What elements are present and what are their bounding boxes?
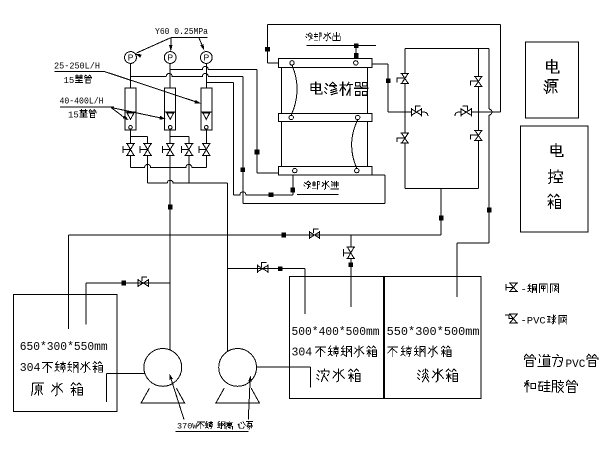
control cabinet box [521, 126, 588, 232]
fresh water tank box [385, 276, 481, 398]
electrodialyzer bottom flange [279, 166, 373, 175]
union on raw recirc [121, 281, 126, 286]
rotameter FM3 float cone [203, 113, 210, 119]
raw water tank box [13, 295, 117, 412]
wire V4 down crossing manifold1 [188, 155, 190, 183]
PVC ball valve on raw recirc [138, 277, 148, 287]
gate valve V5 (line3 main) [199, 144, 211, 156]
rotameter FM3 float line [201, 111, 212, 113]
wire FM2 to valve [169, 130, 171, 144]
pump M2 base [216, 388, 259, 403]
wire pump2 suction dip [310, 367, 312, 387]
svg-text:40-400L/H: 40-400L/H [60, 96, 104, 106]
wire drop to hose line [387, 64, 389, 112]
union on conc recirc [278, 266, 283, 271]
svg-text:550*300*500mm: 550*300*500mm [387, 326, 480, 339]
union on cooling-in riser [291, 188, 296, 193]
union cooling-out tee [354, 43, 359, 48]
pressure gauge P1 [125, 52, 137, 64]
wire valve2 down [169, 155, 171, 167]
gate valve on conc-fill [343, 247, 355, 259]
svg-text:-PVC: -PVC [521, 316, 546, 328]
wire cooling-out label line [307, 45, 376, 47]
wire inner loop right column middle [477, 87, 479, 131]
power supply box [525, 42, 578, 118]
wire raw recirc branch [86, 282, 170, 284]
label 原水箱 [32, 383, 83, 396]
label 不锈钢水箱 (conc tank) [316, 346, 377, 357]
wire hose-right end hook [455, 112, 461, 116]
rotameter FM3 outlet circle [205, 126, 209, 130]
port bottom-right [355, 168, 359, 172]
electrodialyzer top flange [279, 59, 373, 68]
label 塑管 (second) [80, 110, 96, 118]
wire manifold lower (V2-V4 to pump2 riser) [148, 180, 228, 183]
wire cooling-in run [233, 192, 292, 195]
label 铜闸阀 [528, 284, 559, 293]
wire conc-fill upper [350, 235, 352, 247]
union on fresh-feed vertical [487, 208, 492, 213]
label 管道为PVC管 (part2) [587, 354, 598, 366]
union on drop [386, 79, 391, 84]
label 塑管 (first) [75, 75, 91, 83]
wire inner loop drain [440, 189, 442, 236]
legend PVC ball valve symbol [505, 314, 518, 323]
svg-text:370W: 370W [177, 422, 198, 432]
wire inner loop bottom [405, 188, 479, 190]
PVC ball valve on return line [309, 229, 319, 239]
union on gauge1 drop [241, 167, 246, 172]
gate valve V4 (line2 bypass) [181, 144, 193, 156]
gate valve V3 (line2 main) [163, 144, 175, 156]
arrowhead at gauge P1 [135, 52, 142, 58]
wire gauge1 drop [242, 76, 244, 203]
label 40-400 underline [60, 106, 114, 108]
wire hose-left end hook [422, 112, 428, 116]
leader to gauge P3 [199, 38, 204, 50]
wire cooling-out drop to port [355, 46, 357, 59]
wire fresh-fill drop into tank [456, 243, 458, 297]
pressure gauge P3 [200, 52, 212, 64]
port bottom-left [293, 168, 297, 172]
label 箱 (control) [548, 194, 560, 208]
wire inner loop right column lower [477, 141, 479, 189]
label 冷却水进 [304, 181, 339, 189]
PVC ball valve inner-right-upper [471, 77, 483, 87]
PVC ball valve inner-left-lower [397, 133, 409, 143]
wire return line drop to raw tank [68, 235, 70, 329]
leader 25-250 to FM3 [105, 72, 200, 103]
union on return line [281, 233, 286, 238]
leader 40-400 to FM1 float [111, 108, 127, 120]
wire inner loop left column lower [404, 143, 406, 188]
label 浓水箱 [317, 369, 360, 382]
union on pump1 riser [168, 205, 173, 210]
rotameter FM2 body [165, 88, 176, 130]
svg-text:304: 304 [292, 347, 313, 360]
wire stub into top flange left [268, 62, 279, 64]
wire valve1 down [130, 155, 132, 167]
union on gauge2 drop [255, 150, 260, 155]
leader to gauge P2 [170, 38, 172, 50]
union on drain [439, 216, 444, 221]
wire pump2 riser [226, 183, 228, 351]
arrowhead at FM2 float [160, 116, 167, 121]
wire raw recirc drop [85, 283, 87, 324]
wire main return line [69, 234, 441, 236]
wire branch2 horizontal [170, 136, 189, 138]
rotameter FM3 body [201, 88, 212, 130]
rotameter FM2 float line [165, 111, 176, 113]
electrodialyzer middle flange [279, 113, 373, 121]
wire pump1 riser [169, 155, 171, 350]
wire manifold upper (V1-V3-V5) [131, 164, 207, 167]
label 电渗析器 [311, 82, 368, 95]
PVC ball valve on conc recirc [257, 263, 267, 273]
label 冷却水出 [306, 33, 341, 41]
pump M2 body [219, 349, 257, 387]
svg-text:304: 304 [20, 362, 41, 375]
svg-text:650*300*550mm: 650*300*550mm [20, 341, 108, 354]
rotameter FM2 outlet circle [168, 126, 172, 130]
PVC ball valve inner-right-lower [471, 131, 483, 141]
leader to pump M2 [248, 377, 250, 420]
wire inner loop right column upper [477, 48, 479, 76]
leader to gauge P1 [137, 38, 171, 53]
rotameter FM1 float cone [127, 113, 134, 119]
union on outer left drop [265, 47, 270, 52]
concentrate tank box [290, 276, 384, 398]
port mid-left [289, 115, 293, 119]
wire pump1 suction [106, 373, 145, 375]
label 淡水箱 [418, 369, 458, 382]
pump M1 base [141, 388, 184, 403]
wire conc-fill lower [350, 259, 352, 307]
PVC ball valve inner-left-upper [397, 73, 409, 83]
svg-text:P: P [167, 53, 173, 63]
union on conc-fill [349, 262, 354, 267]
electrodialyzer right wall upper [367, 68, 369, 114]
pump label underline [175, 431, 248, 433]
label cooling-in underline [297, 193, 339, 195]
wire gauge2 drop [256, 70, 258, 174]
arrowhead at pump M2 [248, 375, 252, 381]
wire hose-left run [388, 111, 411, 113]
svg-text:-: - [521, 284, 527, 296]
rotameter FM1 body [125, 88, 136, 130]
label 25-250 underline [55, 71, 106, 73]
svg-text:Y60 0.25MPa: Y60 0.25MPa [155, 27, 209, 37]
wire inner loop left column middle [404, 83, 406, 133]
arrowhead at gauge P2 [169, 45, 173, 51]
wire branch1 horizontal [131, 136, 148, 138]
wire gauge1 bottom run [243, 203, 385, 205]
label 控 (control) [549, 169, 562, 183]
wire top flange right stub [372, 63, 388, 65]
wire up to stack bottom-right [384, 175, 386, 204]
wire outer loop right drop [499, 25, 501, 113]
label 源 (power) [544, 80, 558, 94]
svg-text:PVC: PVC [566, 359, 586, 371]
wire gauge2 header [170, 67, 257, 70]
arrowhead at gauge P3 [200, 44, 206, 51]
wire conc recirc branch [227, 268, 305, 270]
gate valve V1 (line1 main) [123, 144, 135, 156]
PVC ball valve on hose-left [411, 106, 421, 116]
wire V2 down crossing manifold1 [147, 155, 149, 183]
rotameter FM1 outlet circle [129, 126, 133, 130]
arrowhead at pump M1 [168, 373, 173, 380]
electrodialyzer right wall lower [367, 122, 369, 167]
wire cooling-in up to port [292, 175, 294, 195]
pressure gauge P2 [164, 52, 176, 64]
wire outer loop left drop [267, 25, 269, 63]
leader 40-400 to FM2 float [111, 108, 164, 119]
port top-right [354, 61, 358, 65]
wire fresh-fill horizontal [457, 242, 489, 244]
label 不锈钢离心泵 [197, 421, 253, 429]
wire branch2 down to valve [188, 137, 190, 144]
wire gauge3 drop [232, 83, 234, 195]
gauge P3 stem wire [205, 63, 207, 88]
wire pump1 suction dip [105, 374, 107, 403]
wire FM3 to valve [205, 130, 207, 144]
union on cooling-in run [269, 193, 274, 198]
svg-text:P: P [128, 53, 134, 63]
legend gate valve symbol [506, 283, 518, 292]
gauge P1 stem wire [130, 63, 132, 88]
wire hose-right run [471, 111, 500, 113]
gauge P2 stem wire [169, 63, 171, 88]
pump M1 body [144, 349, 182, 387]
svg-text:P: P [204, 53, 210, 63]
wire gauge3 header [206, 82, 233, 84]
wire inner loop left column upper [404, 48, 406, 73]
wire pump2 suction [256, 366, 310, 368]
label 电 (power) [547, 60, 559, 73]
svg-text:500*400*500mm: 500*400*500mm [292, 326, 380, 339]
wire fresh-feed vertical lower [488, 115, 490, 243]
wire conc recirc drop [304, 269, 306, 314]
wire fresh-feed vertical upper [488, 48, 490, 109]
wire outer loop top [268, 24, 501, 26]
label 管道为PVC管 (part1) [524, 354, 562, 366]
label 电 (control) [551, 144, 563, 157]
wire inner loop top [405, 47, 489, 49]
internal flow curve upper-left [291, 65, 297, 115]
label 不锈钢水箱 (raw tank) [43, 362, 103, 373]
label 和硅胶管 [524, 380, 577, 392]
port top-left [290, 61, 294, 65]
label 球阀 [548, 315, 567, 324]
electrodialyzer left wall lower [280, 122, 282, 167]
wire gauge1 header [131, 73, 243, 76]
wire valve3 down [205, 155, 207, 167]
leader to pump M1 [170, 375, 184, 420]
internal flow curve lower-right [352, 120, 358, 169]
port mid-right [356, 115, 360, 119]
svg-text:25-250L/H: 25-250L/H [54, 61, 100, 71]
wire branch1 down to valve [147, 137, 149, 144]
rotameter FM1 float line [125, 111, 136, 113]
label 不锈钢水箱 (fresh tank) [388, 346, 451, 357]
arrowhead at FM3 [195, 100, 202, 105]
union above top flange [354, 53, 359, 58]
svg-text:15: 15 [68, 110, 79, 120]
rotameter FM2 float cone [167, 113, 174, 119]
label Y60 bracket line [171, 37, 208, 39]
svg-text:15: 15 [64, 76, 75, 86]
gate valve V2 (line1 bypass) [140, 144, 152, 156]
PVC ball valve on hose-right [461, 106, 471, 116]
wire gauge2 drop to stack bottom-left [257, 172, 279, 174]
wire fresh-feed jog over hose line [489, 109, 492, 115]
arrowhead at FM1 float [123, 115, 130, 122]
wire stub into stack bottom bar right [372, 174, 385, 176]
electrodialyzer left wall upper [280, 68, 282, 114]
wire FM1 to valve [130, 130, 132, 144]
